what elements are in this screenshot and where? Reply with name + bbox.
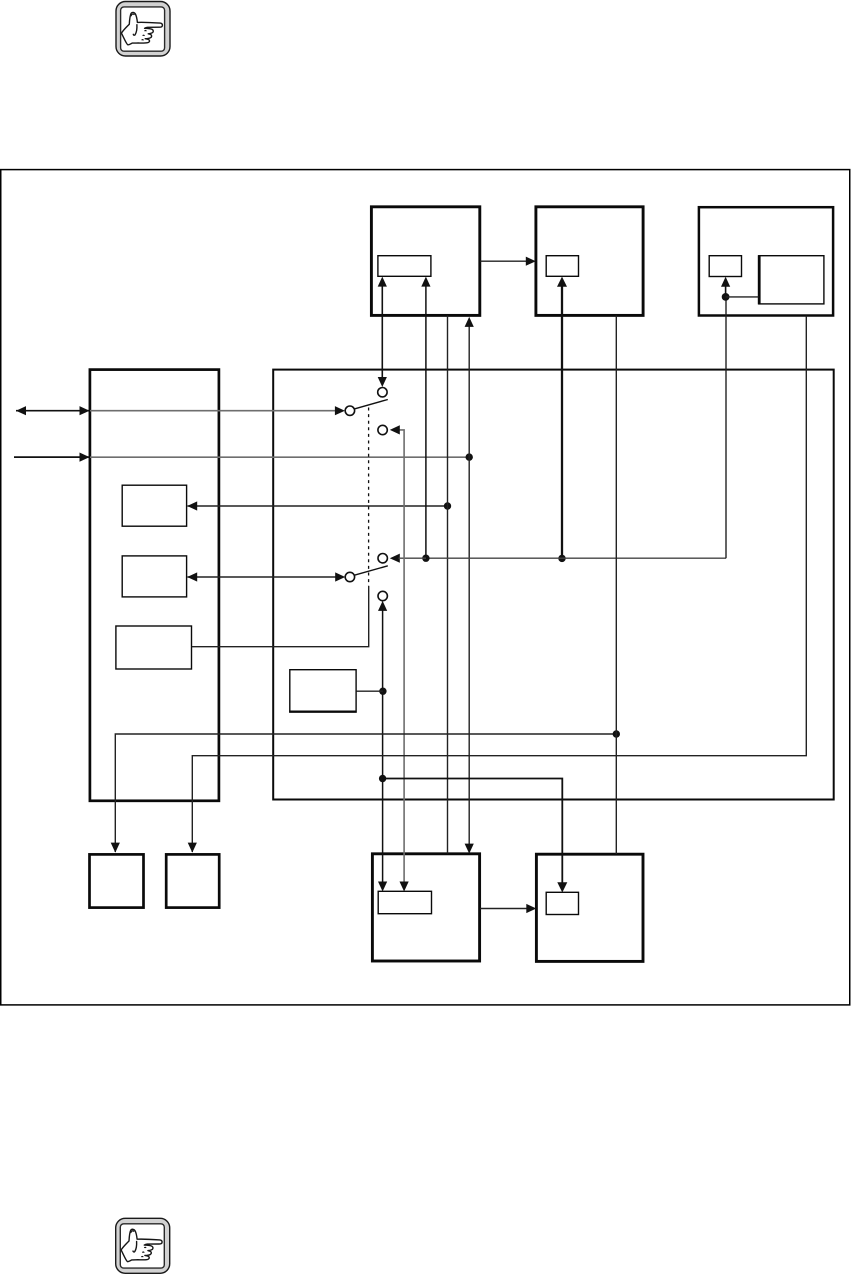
- large rect inside top box 3: [759, 256, 824, 304]
- thick bottom edge of rect C: [289, 710, 356, 712]
- arrowhead down into register of lower box 1 (right): [400, 882, 409, 892]
- wire: vertical from top box 2 bottom through node down to lower box 2 (x616): [615, 316, 617, 855]
- register rect inside top box 1: [378, 256, 431, 277]
- rect B in left box: [122, 556, 186, 597]
- rect C oscillator in central box: [290, 670, 356, 712]
- arrowhead up into register rect of top box 1 (left): [378, 277, 387, 287]
- block: left box: [90, 370, 219, 801]
- switch SW2: upper throw contact circle: [378, 554, 387, 563]
- arrowhead up into small rect of top box 3: [721, 277, 730, 287]
- block: top box 1: [371, 207, 479, 316]
- wire: vertical through SW2 lower throw down to register of lower box 1 (x382.6): [382, 608, 384, 885]
- arrowhead into SW1 lower throw: [390, 425, 400, 434]
- switch SW1: common contact circle: [345, 406, 354, 415]
- switch SW1: lower throw contact circle: [378, 425, 387, 434]
- arrowhead left end of bidirectional line: [16, 406, 26, 415]
- arrowhead into lower box 2: [526, 904, 536, 913]
- wire: vertical from register 1 down to SW1 upper throw (x382.3): [381, 284, 383, 379]
- wire: vertical from register 1 down to node y558 (x425.9): [425, 284, 427, 558]
- wire: from rect D right, over and up to dashed coupling (control of switches): [192, 586, 369, 647]
- arrowhead down into register of lower box 2: [557, 882, 567, 892]
- wire: from node to large rect inside box 3: [726, 296, 759, 298]
- wire: external bidirectional line into left box (y 410.5): [16, 410, 89, 412]
- arrowhead up into register rect of top box 2: [557, 277, 567, 287]
- block: top box 2: [536, 207, 643, 316]
- small rect inside top box 3: [709, 256, 741, 277]
- register rect inside lower box 1: [378, 891, 431, 913]
- thick left edge of large rect in box 3: [758, 255, 761, 304]
- switch SW2: common contact circle: [345, 572, 354, 581]
- rect A in left box: [122, 485, 186, 526]
- switch SW2: lever: [354, 566, 387, 575]
- node: junction of oscillator output x383 y691: [379, 688, 386, 695]
- wire: horizontal y755.7 from left box to riser x806 up to top box 3: [192, 316, 806, 852]
- arrowhead up into register rect of top box 1 (right): [421, 277, 430, 287]
- figure frame: [1, 170, 850, 1005]
- block: central box: [273, 370, 834, 800]
- node: junction x562 on wire y558: [558, 555, 565, 562]
- wire: vertical from top box 1 bottom to lower box 1 top (x447.5): [447, 316, 449, 854]
- node: junction on vertical wire x447 at y506: [444, 502, 451, 509]
- block: small box B bottom left: [166, 854, 219, 907]
- wire: vertical with arrows both ends (x469) from top box 1 to lower box 1: [468, 324, 470, 847]
- wire: stub from node up into small rect of box 3: [725, 284, 727, 297]
- wire: grey continuation across to node (y 456): [90, 456, 469, 458]
- arrowhead into SW2 upper throw: [390, 554, 400, 563]
- node: junction y734 on vertical wire x616: [613, 730, 620, 737]
- switch SW1: upper throw contact circle: [378, 388, 387, 397]
- wire: short link from arrow tail to node x426: [399, 557, 427, 559]
- arrowhead down into top border of lower box 1: [465, 844, 474, 854]
- block: lower box 2: [536, 854, 643, 961]
- arrowhead down into small box B: [188, 843, 197, 853]
- block: top box 3: [699, 207, 833, 315]
- mechanical coupling dashed link between SW1 and SW2: [368, 408, 370, 587]
- arrowhead down into SW1 upper throw: [378, 377, 387, 387]
- wire: from node x447 to rect A: [188, 505, 448, 507]
- register rect inside top box 2: [546, 256, 578, 277]
- arrowhead down into register of lower box 1 (left): [378, 882, 387, 892]
- node: junction inside top box 3: [722, 293, 730, 301]
- block: small box A bottom left: [90, 854, 144, 907]
- note icon (bottom): grey rounded square with pointing hand: [116, 1218, 170, 1273]
- arrowhead up into bottom border of top box 1: [465, 317, 474, 327]
- wire: oscillator rect C output to node: [356, 690, 383, 692]
- arrowhead into rect A: [187, 501, 197, 510]
- wire: grey path from SW1 lower throw right then down to lower box 1 register (x404): [397, 430, 405, 885]
- arrowhead into left box (y 456): [80, 453, 90, 462]
- wire: grey continuation to switch 1 common: [90, 410, 337, 412]
- arrowhead into rect B: [187, 572, 197, 581]
- wire: thick vertical from node y558 up into register of top box 2 (x562): [561, 284, 563, 558]
- wire: external input line (y 456): [14, 456, 89, 458]
- arrowhead into left box (y 410.5): [80, 406, 90, 415]
- wire: arrow from top box 1 to top box 2: [480, 260, 528, 262]
- rect D in left box: [116, 626, 192, 669]
- arrowhead into switch 1 common: [335, 406, 345, 415]
- node: junction of input line with vertical wire x469: [466, 453, 473, 460]
- node: junction x426 on wire y558: [422, 555, 429, 562]
- wire: horizontal distribution line y558 from node x426 to elbow x726: [426, 557, 726, 559]
- wire: branch y778.5 from node to elbow x562.3 then down into register of lower box 2: [383, 779, 563, 886]
- arrowhead down into small box A: [111, 843, 120, 853]
- block: lower box 1: [372, 854, 479, 961]
- note icon (top): grey rounded square with pointing hand: [116, 2, 170, 57]
- register rect inside lower box 2: [546, 892, 578, 914]
- arrowhead into switch 2 common: [335, 572, 345, 581]
- arrowhead into top box 2: [526, 257, 536, 266]
- arrowhead up into SW2 lower throw: [378, 601, 387, 611]
- wire: arrow from lower box 1 to lower box 2: [480, 908, 528, 910]
- wire: vertical rise from y558 elbow up into top box 3 (x726): [725, 297, 727, 558]
- node: junction x382.6 y778.5 branch to lower box 2: [379, 775, 386, 782]
- wire: from switch 2 throw line to rect B: [188, 576, 338, 578]
- wire: horizontal y734 from left box to node on x616: [115, 734, 616, 852]
- switch SW2: lower throw contact circle: [378, 591, 387, 600]
- switch SW1: lever: [354, 400, 387, 409]
